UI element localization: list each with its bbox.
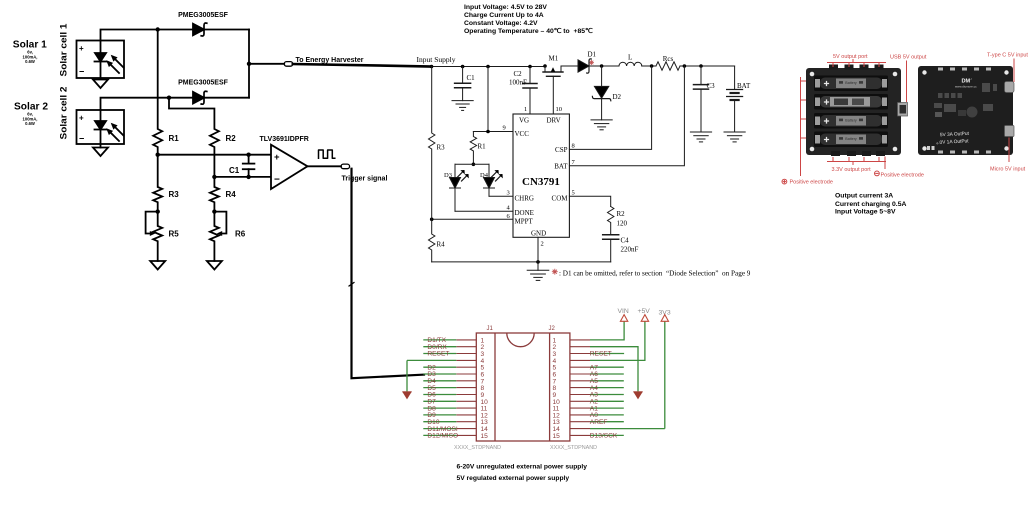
svg-text:GND: GND	[531, 230, 546, 238]
wire minus input	[214, 176, 271, 178]
svg-text:Output current 3A: Output current 3A	[835, 192, 893, 199]
svg-text:R6: R6	[235, 230, 246, 239]
connector J1/J2 body	[476, 333, 570, 441]
svg-text:PMEG3005ESF: PMEG3005ESF	[178, 12, 229, 19]
resistor R3 (charger)	[429, 67, 446, 220]
USB output connector	[898, 103, 908, 117]
wire bottom ground rail	[432, 261, 611, 263]
svg-text:VCC: VCC	[515, 130, 530, 138]
svg-text:4: 4	[507, 205, 511, 212]
svg-text:6-20V unregulated external pow: 6-20V unregulated external power supply	[457, 464, 588, 471]
svg-text:Constant Voltage: 4.2V: Constant Voltage: 4.2V	[464, 20, 538, 27]
wire BAT pin 7	[569, 66, 684, 166]
svg-text:C1: C1	[229, 166, 240, 175]
supply arrow VIN	[618, 308, 629, 321]
annotation type-C input	[987, 53, 1028, 83]
power supply note text	[457, 464, 588, 483]
op-amp U1 TLV3691IDPFR	[260, 136, 309, 189]
svg-text:220nF: 220nF	[621, 246, 639, 254]
svg-text:MPPT: MPPT	[515, 218, 534, 226]
resistor R1 (charger)	[470, 132, 486, 167]
svg-text:www.diymore.cc: www.diymore.cc	[955, 85, 977, 89]
svg-text:Input Voltage: 4.5V to 28V: Input Voltage: 4.5V to 28V	[464, 4, 547, 11]
svg-text:RESET: RESET	[427, 351, 449, 358]
svg-text:−: −	[79, 134, 84, 144]
micro USB connector	[1005, 126, 1015, 137]
svg-text:DONE: DONE	[515, 209, 534, 217]
IC U2 CN3791	[513, 114, 569, 248]
ground (battery, earth)	[724, 132, 745, 142]
pin numbers J1	[481, 337, 489, 440]
ground (chip GND, earth)	[527, 237, 549, 280]
J1 pin labels	[427, 337, 458, 440]
svg-text:R4: R4	[226, 190, 237, 199]
net Input Supply label	[417, 55, 456, 64]
node (C1 bottom)	[246, 175, 250, 179]
svg-text:R2: R2	[617, 210, 626, 218]
battery BAT	[727, 66, 751, 132]
wire D4 to CHRG pin 3	[489, 190, 513, 197]
svg-text:R1: R1	[169, 134, 180, 143]
node (R3/R5 junction)	[156, 209, 160, 213]
svg-text:10: 10	[556, 106, 563, 113]
node GND rail	[536, 260, 540, 264]
capacitor C2 100nF	[509, 65, 537, 114]
svg-text:Solar cell 2: Solar cell 2	[59, 87, 69, 140]
wire solar1 top rail	[101, 30, 250, 41]
svg-text:100nF: 100nF	[509, 79, 527, 87]
svg-text:0.6W: 0.6W	[25, 59, 35, 64]
J2 right net wires	[570, 340, 590, 436]
wire MPPT pin 6	[430, 213, 513, 221]
svg-text:−: −	[274, 175, 280, 186]
wire plus input	[158, 154, 271, 156]
svg-text:Input Voltage 5~8V: Input Voltage 5~8V	[835, 209, 896, 216]
svg-text:J2: J2	[549, 326, 556, 332]
svg-text:Battery: Battery	[845, 119, 857, 123]
resistor R5 (trimmer, wiper strap left)	[146, 212, 180, 261]
capacitor C1 (comparator)	[229, 155, 254, 177]
svg-text:USB 5V output: USB 5V output	[890, 55, 927, 61]
node CSP tap	[650, 64, 654, 68]
LED D3	[444, 164, 469, 211]
resistor R3	[153, 155, 179, 212]
svg-text:C3: C3	[707, 82, 716, 90]
svg-text:15: 15	[481, 433, 489, 440]
svg-text:CN3791: CN3791	[522, 176, 560, 188]
resistor Rcs	[656, 55, 735, 70]
diode D2 (schottky to gnd)	[592, 66, 621, 120]
wire solar2 rail	[101, 98, 250, 110]
wire CSP pin 8	[569, 66, 651, 150]
svg-text:M1: M1	[549, 55, 559, 63]
transistor M1 (PMOS)	[543, 55, 563, 115]
ground (solar cell 2)	[93, 148, 108, 157]
node (solar2 / R2 tap)	[167, 96, 171, 100]
square wave glyph	[319, 150, 335, 158]
svg-text:5V regulated external power su: 5V regulated external power supply	[457, 475, 570, 482]
svg-text:: D1 can be omitted, refer to: : D1 can be omitted, refer to section “D…	[559, 270, 751, 278]
svg-text:DRV: DRV	[547, 117, 561, 125]
svg-text:R4: R4	[437, 241, 446, 249]
svg-text:VIN: VIN	[618, 308, 629, 315]
svg-text:9: 9	[503, 125, 506, 132]
svg-text:3.3V output port: 3.3V output port	[832, 167, 872, 173]
SECTION: arduino eagle schematic	[402, 308, 671, 482]
svg-text:Input Supply: Input Supply	[417, 55, 456, 64]
svg-text:XXXX_STDPNAND: XXXX_STDPNAND	[550, 445, 597, 451]
wire to input supply (thick)	[293, 64, 432, 67]
ground arrow (J2 pin2)	[633, 392, 642, 400]
svg-text:D13/SCK: D13/SCK	[590, 433, 618, 440]
annotation 3.3V output port	[827, 157, 886, 173]
svg-text:Current charging 0.5A: Current charging 0.5A	[835, 201, 906, 208]
svg-text:0.6W: 0.6W	[25, 121, 35, 126]
battery shield board (back)	[918, 66, 1013, 155]
footnote	[552, 269, 751, 277]
battery shield board (front)	[806, 65, 901, 157]
svg-text:5: 5	[572, 190, 575, 197]
svg-text:7: 7	[572, 159, 576, 166]
node after D1	[600, 64, 604, 68]
solar panel PV2 (Solar 2)	[14, 87, 124, 148]
SECTION: CN3791 schematic	[417, 4, 751, 280]
node input supply	[430, 65, 434, 69]
svg-text:BAT: BAT	[554, 163, 568, 171]
svg-text:R5: R5	[169, 230, 180, 239]
J1 J2 names	[487, 326, 556, 332]
connector To Energy Harvester	[284, 57, 364, 66]
ground (solar cell 1)	[93, 80, 108, 89]
svg-text:R3: R3	[437, 144, 446, 152]
svg-text:−: −	[79, 67, 84, 77]
SECTION: photos	[782, 53, 1028, 216]
node BAT tap	[683, 64, 687, 68]
svg-text:Solar cell 1: Solar cell 1	[59, 24, 69, 77]
svg-text:R2: R2	[226, 134, 237, 143]
svg-text:TLV3691IDPFR: TLV3691IDPFR	[260, 136, 309, 143]
svg-text:R3: R3	[169, 190, 180, 199]
svg-text:CSP: CSP	[555, 146, 568, 154]
wire input supply rail	[432, 66, 546, 68]
svg-text:Battery: Battery	[845, 137, 857, 141]
annotation 5V output port	[827, 54, 886, 67]
svg-text:Positive electrode: Positive electrode	[881, 173, 924, 179]
wire D3 to DONE pin 4	[455, 205, 513, 212]
node (solar1 / R1 tap)	[156, 27, 160, 31]
inductor L	[619, 54, 656, 67]
capacitor C1 (charger input)	[455, 65, 476, 101]
svg-text:BAT: BAT	[737, 82, 751, 90]
wire op-amp output	[308, 165, 342, 167]
wire COM pin 5	[569, 190, 610, 207]
node (R4/R6 junction)	[212, 209, 216, 213]
svg-text:3: 3	[507, 190, 510, 197]
resistor R2 120	[608, 207, 628, 235]
resistor R4 (charger)	[429, 219, 446, 262]
svg-text:+: +	[79, 114, 84, 123]
ground (R6)	[207, 261, 222, 270]
svg-text:Trigger signal: Trigger signal	[342, 176, 388, 183]
svg-text:Positive electrode: Positive electrode	[790, 180, 833, 186]
svg-text:RESET: RESET	[590, 351, 612, 358]
ground (D2, earth)	[591, 120, 612, 130]
wire LED rail	[455, 163, 489, 165]
annotation USB 5V output	[890, 55, 927, 103]
ground (C3, earth)	[690, 132, 711, 142]
svg-text:L: L	[628, 54, 632, 62]
ground arrow (J1 pin4)	[402, 392, 411, 400]
connector part names	[454, 445, 597, 451]
svg-text:R1: R1	[478, 143, 487, 151]
type-C connector	[1005, 82, 1015, 93]
svg-text:Operating Temperature – 40℃ to: Operating Temperature – 40℃ to +85℃	[464, 27, 593, 35]
resistor R6 (trimmer, wiper strap right)	[210, 212, 246, 261]
svg-text:2: 2	[541, 241, 544, 248]
svg-text:1: 1	[524, 106, 527, 113]
wire diode outputs join	[249, 30, 284, 98]
svg-text:D2: D2	[613, 93, 622, 101]
wire VCC branch	[473, 65, 513, 134]
svg-text:COM: COM	[552, 195, 569, 203]
svg-text:15: 15	[553, 433, 561, 440]
svg-text:VG: VG	[519, 117, 529, 125]
svg-text:T-ype C 5V input: T-ype C 5V input	[987, 53, 1028, 59]
J2 pin labels	[590, 351, 618, 440]
annotation micro input	[990, 138, 1026, 173]
capacitor C4 220nF	[603, 235, 639, 262]
resistor R4	[210, 177, 236, 212]
svg-text:C1: C1	[467, 74, 476, 82]
resistor R2	[169, 98, 236, 177]
node (harvester output)	[247, 62, 251, 66]
svg-text:AREF: AREF	[590, 419, 608, 426]
svg-text:Micro 5V input: Micro 5V input	[990, 167, 1026, 173]
SECTION: left solar schematic	[13, 12, 432, 378]
svg-text:XXXX_STDPNAND: XXXX_STDPNAND	[454, 445, 501, 451]
LED D4	[480, 164, 503, 196]
svg-text:PMEG3005ESF: PMEG3005ESF	[178, 80, 229, 87]
svg-text:D1: D1	[588, 51, 597, 59]
svg-text:C4: C4	[621, 237, 630, 245]
diode PMEG3005ESF (bottom)	[178, 80, 229, 105]
capacitor C3	[694, 66, 716, 132]
node C3 tap	[699, 64, 703, 68]
svg-text:5V output port: 5V output port	[833, 54, 868, 60]
supply arrow +5V	[638, 308, 651, 321]
svg-text:+: +	[274, 152, 280, 163]
ground (C1 charger, earth)	[452, 101, 473, 111]
resistor R1	[153, 30, 179, 155]
svg-text:+5V: +5V	[638, 308, 651, 315]
svg-text:+: +	[79, 44, 84, 53]
annotation positive electrode (plus)	[782, 77, 833, 186]
pin numbers J2	[553, 337, 561, 440]
wire trigger to nano D3	[349, 169, 424, 379]
node (R2/R4/- wire)	[212, 175, 216, 179]
J1 left net wires	[456, 340, 476, 436]
svg-text:J1: J1	[487, 326, 494, 332]
solar panel PV1 (Solar 1)	[13, 24, 124, 80]
diode D1 (schottky)	[561, 51, 619, 74]
spec text block	[464, 4, 593, 35]
diode PMEG3005ESF (top)	[178, 12, 229, 36]
module spec text	[835, 192, 906, 215]
svg-text:Charge Current Up to 4A: Charge Current Up to 4A	[464, 12, 544, 19]
connector Trigger signal	[341, 164, 387, 182]
svg-text:Battery: Battery	[845, 81, 857, 85]
node (C1 top)	[246, 153, 250, 157]
svg-text:D12/MISO: D12/MISO	[427, 433, 458, 440]
svg-text:8: 8	[572, 143, 575, 150]
supply arrow 3V3	[659, 310, 671, 322]
svg-text:120: 120	[617, 220, 628, 228]
annotation positive electrode (minus)	[875, 157, 924, 179]
svg-text:CHRG: CHRG	[515, 195, 534, 203]
svg-text:Rcs: Rcs	[663, 55, 674, 63]
ground (R5)	[150, 261, 165, 270]
node (R1/R3/+ wire)	[156, 153, 160, 157]
svg-text:C2: C2	[514, 70, 523, 78]
